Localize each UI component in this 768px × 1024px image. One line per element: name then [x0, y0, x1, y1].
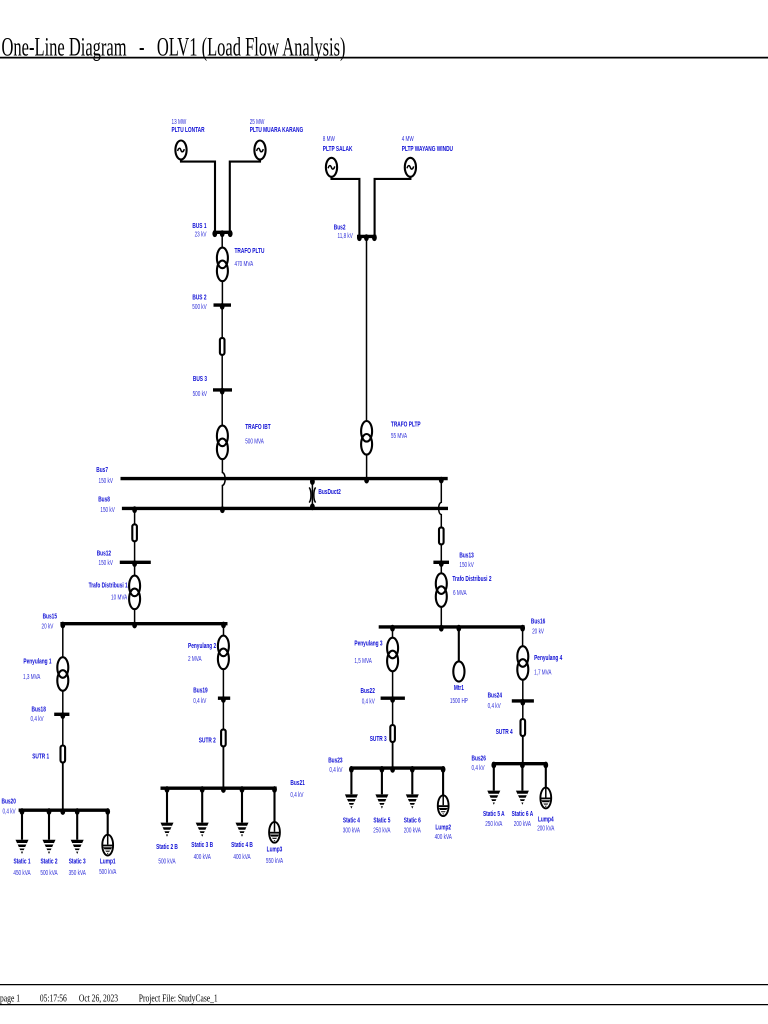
- load Lump4: [540, 788, 551, 809]
- wire SUTR 3 to Bus23: [392, 742, 394, 767]
- load Lump3 label: [266, 844, 283, 865]
- svg-text:150 kV: 150 kV: [99, 560, 114, 567]
- svg-text:1,3 MVA: 1,3 MVA: [23, 674, 41, 681]
- load Lump4 label: [537, 814, 554, 832]
- wire to Static 3: [76, 811, 78, 840]
- svg-text:Bus20: Bus20: [2, 796, 16, 805]
- bus Bus8 150 kV: [98, 495, 448, 515]
- svg-text:0,4 kV: 0,4 kV: [472, 765, 485, 772]
- transformer TRAFO PLTU: [217, 248, 228, 282]
- svg-text:Static 6 A: Static 6 A: [512, 809, 534, 818]
- svg-text:200 kVA: 200 kVA: [514, 821, 531, 828]
- load Static 5 A label: [483, 809, 505, 828]
- svg-text:Lump4: Lump4: [538, 814, 554, 823]
- load Static 3 label: [69, 857, 86, 878]
- svg-text:Trafo Distribusi 2: Trafo Distribusi 2: [452, 574, 491, 583]
- svg-text:SUTR 4: SUTR 4: [496, 727, 514, 736]
- svg-text:Lump2: Lump2: [435, 823, 451, 832]
- svg-text:Bus19: Bus19: [193, 685, 207, 694]
- svg-text:500 MVA: 500 MVA: [245, 439, 264, 446]
- transformer TRAFO IBT: [217, 426, 228, 460]
- load Static 4 B: [236, 823, 249, 837]
- node dot on Bus12: [132, 560, 137, 567]
- footer top line: [0, 984, 768, 986]
- svg-text:Static 4: Static 4: [343, 816, 361, 825]
- node dot on Bus24: [520, 699, 525, 706]
- load Static 4 B label: [231, 840, 253, 861]
- wire to Lump1: [107, 811, 109, 835]
- cable SUTR 4: [521, 719, 526, 736]
- svg-text:Static 5 A: Static 5 A: [483, 809, 505, 818]
- svg-text:500 kV: 500 kV: [192, 304, 207, 311]
- generator PLTP WAYANG WINDU label: [402, 136, 453, 153]
- svg-text:6 MVA: 6 MVA: [453, 590, 467, 597]
- node dots on Bus16: [390, 625, 525, 632]
- node dot on Bus19: [221, 696, 226, 703]
- bus Bus26 0,4 kV: [472, 753, 547, 772]
- svg-text:TRAFO IBT: TRAFO IBT: [245, 422, 271, 431]
- svg-text:Bus7: Bus7: [96, 465, 108, 474]
- wire to Static 4: [350, 769, 352, 794]
- motor Mtr1: [453, 661, 464, 681]
- bus BUS 2 500 kV: [192, 293, 231, 311]
- wire Bus13 to Trafo Distribusi 2: [440, 563, 442, 573]
- load Lump1 label: [99, 857, 116, 877]
- wire BUS 3 to TRAFO IBT: [221, 391, 223, 426]
- node dot on BUS 3: [220, 388, 225, 395]
- svg-text:550 kVA: 550 kVA: [266, 858, 283, 865]
- busduct BusDuct2 symbol: [309, 487, 315, 502]
- wire Bus16 to Penyulang 3: [392, 628, 394, 638]
- bus Bus7 150 kV: [96, 465, 447, 485]
- transformer Penyulang 2 label: [188, 641, 216, 663]
- load Static 2 label: [40, 857, 57, 878]
- svg-text:BUS 2: BUS 2: [192, 293, 206, 302]
- load Lump3: [269, 822, 280, 843]
- wire Bus12 to Trafo Distribusi 1: [134, 563, 136, 576]
- load Static 6 A: [516, 791, 529, 805]
- svg-text:150 kV: 150 kV: [99, 478, 114, 485]
- wire SUTR 1 to Bus20: [62, 763, 64, 810]
- cable impedance above Bus13: [439, 527, 444, 544]
- bus Bus24 0,4 kV: [488, 691, 534, 710]
- wire Trafo Distribusi 2 to Bus16: [440, 607, 442, 626]
- svg-text:Penyulang 2: Penyulang 2: [188, 641, 216, 650]
- svg-text:470 MVA: 470 MVA: [235, 261, 254, 268]
- wire BUS 1 to TRAFO PLTU: [221, 233, 223, 248]
- bus Bus20 0,4 kV: [2, 796, 109, 815]
- cable impedance above Bus12: [132, 524, 137, 541]
- svg-text:Bus21: Bus21: [290, 778, 304, 787]
- svg-text:450 kVA: 450 kVA: [13, 870, 30, 877]
- svg-text:1,7 MVA: 1,7 MVA: [534, 669, 552, 676]
- load Static 1: [16, 840, 29, 854]
- svg-text:500 kVA: 500 kVA: [158, 858, 175, 865]
- svg-text:Lump1: Lump1: [100, 857, 116, 866]
- load Static 4: [345, 794, 358, 808]
- wire gen3 to Bus2: [332, 177, 360, 237]
- node dot right drop on Bus7: [439, 477, 444, 484]
- wire to Static 2 B: [166, 789, 168, 823]
- bus Bus13 150 kV: [433, 550, 474, 569]
- svg-text:PLTU MUARA KARANG: PLTU MUARA KARANG: [250, 125, 304, 134]
- wire Penyulang 1 to Bus18: [62, 691, 64, 713]
- wire to Static 6: [411, 769, 413, 794]
- svg-text:500 kVA: 500 kVA: [99, 869, 116, 876]
- cable SUTR 3: [390, 725, 395, 742]
- wire SUTR 4 to Bus26: [522, 736, 524, 763]
- load Static 3: [71, 840, 84, 854]
- svg-text:PLTP WAYANG WINDU: PLTP WAYANG WINDU: [402, 144, 453, 153]
- load Lump2: [438, 795, 449, 816]
- load Static 6 A label: [512, 809, 534, 828]
- svg-text:Static 5: Static 5: [373, 816, 390, 825]
- svg-text:TRAFO PLTU: TRAFO PLTU: [235, 246, 265, 255]
- wire Bus16 to Penyulang 4: [522, 628, 524, 646]
- transformer Penyulang 1: [57, 657, 68, 691]
- svg-text:Bus22: Bus22: [361, 686, 375, 695]
- svg-text:Bus26: Bus26: [472, 753, 486, 762]
- svg-text:Static 3 B: Static 3 B: [191, 840, 213, 849]
- wire Bus8 to left cable: [134, 509, 136, 524]
- svg-text:55 MVA: 55 MVA: [391, 433, 407, 440]
- svg-text:0,4 kV: 0,4 kV: [3, 809, 16, 816]
- svg-text:4 MW: 4 MW: [402, 136, 414, 143]
- svg-text:1500 HP: 1500 HP: [450, 698, 468, 705]
- wire TRAFO IBT to Bus8 with hop over Bus7: [222, 459, 225, 506]
- svg-text:BUS 3: BUS 3: [193, 374, 207, 383]
- footer bottom line: [0, 1004, 768, 1006]
- wire TRAFO PLTP to Bus7: [366, 455, 368, 478]
- wire TRAFO PLTU to BUS 2: [221, 281, 223, 304]
- node dots on Bus23: [349, 766, 446, 773]
- node dot on BUS 2: [220, 303, 225, 310]
- wire to Static 5 A: [493, 765, 495, 791]
- bus BUS 1 23 kV: [192, 221, 232, 239]
- node dots on Bus15: [60, 622, 226, 629]
- load Static 3 B label: [191, 840, 213, 861]
- bus Bus21 0,4 kV: [161, 778, 305, 799]
- svg-text:1,5 MVA: 1,5 MVA: [354, 658, 372, 665]
- wire to Lump3: [273, 789, 275, 822]
- transformer TRAFO PLTU label: [235, 246, 265, 268]
- wire to Static 1: [21, 811, 23, 840]
- load Static 2 B label: [156, 842, 178, 866]
- node dot on Bus13: [439, 560, 444, 567]
- cable SUTR 2: [221, 729, 226, 746]
- node dots on Bus26: [491, 762, 548, 769]
- svg-text:Lump3: Lump3: [267, 844, 283, 853]
- svg-text:SUTR 3: SUTR 3: [370, 734, 387, 743]
- busduct BusDuct2 wire: [311, 480, 313, 507]
- node dots on Bus2: [357, 234, 377, 241]
- wire Trafo Distribusi 1 to Bus15: [134, 609, 136, 622]
- svg-text:SUTR 1: SUTR 1: [32, 752, 49, 761]
- svg-text:400 kVA: 400 kVA: [233, 854, 250, 861]
- svg-text:300 kVA: 300 kVA: [343, 827, 360, 834]
- transformer Penyulang 4: [517, 646, 528, 680]
- svg-text:400 kVA: 400 kVA: [435, 834, 452, 841]
- bus Bus15 20 kV: [42, 611, 228, 630]
- wire Bus16 to Mtr1: [458, 628, 460, 662]
- wire Bus22 to SUTR 3: [392, 699, 394, 725]
- svg-text:Bus12: Bus12: [97, 548, 111, 557]
- wire cable to Bus13: [440, 544, 442, 561]
- load Lump1: [102, 835, 113, 856]
- svg-text:Static 1: Static 1: [14, 857, 31, 866]
- transformer Penyulang 3 label: [354, 638, 382, 665]
- svg-text:Penyulang 3: Penyulang 3: [354, 638, 382, 647]
- svg-text:0,4 kV: 0,4 kV: [488, 703, 501, 710]
- svg-text:0,4 kV: 0,4 kV: [193, 698, 206, 705]
- svg-text:400 kVA: 400 kVA: [194, 854, 211, 861]
- svg-text:0,4 kV: 0,4 kV: [31, 716, 44, 723]
- load Static 4 label: [343, 816, 361, 835]
- load Static 6: [406, 794, 419, 808]
- wire to Static 2: [48, 811, 50, 840]
- node dot on Bus18: [60, 712, 65, 719]
- node dot on Bus22: [390, 696, 395, 703]
- svg-text:Trafo Distribusi 1: Trafo Distribusi 1: [89, 580, 128, 589]
- svg-text:Bus13: Bus13: [459, 550, 473, 559]
- svg-text:Bus16: Bus16: [531, 616, 545, 625]
- motor Mtr1 label: [450, 683, 468, 705]
- load Static 2: [43, 840, 56, 854]
- wire Bus15 to Penyulang 2: [223, 625, 225, 636]
- svg-text:350 kVA: 350 kVA: [69, 870, 86, 877]
- svg-text:0,4 kV: 0,4 kV: [362, 698, 375, 705]
- wire Bus18 to SUTR 1: [62, 715, 64, 746]
- svg-text:200 kVA: 200 kVA: [404, 827, 421, 834]
- wire to Static 6 A: [521, 765, 523, 791]
- bus Bus18 0,4 kV: [31, 705, 70, 723]
- wire BUS 2 to cable: [221, 306, 223, 338]
- bus Bus12 150 kV: [97, 548, 151, 567]
- svg-text:page 1: page 1: [0, 993, 20, 1004]
- svg-text:SUTR 2: SUTR 2: [199, 735, 216, 744]
- node dots on Bus21: [165, 786, 277, 793]
- load Static 5 label: [373, 816, 390, 835]
- svg-text:Project File: StudyCase_1: Project File: StudyCase_1: [139, 993, 218, 1004]
- wire Bus24 to SUTR 4: [522, 702, 524, 719]
- svg-text:Penyulang 4: Penyulang 4: [534, 653, 563, 662]
- svg-text:PLTU LONTAR: PLTU LONTAR: [172, 125, 206, 134]
- svg-text:23 kV: 23 kV: [195, 231, 207, 238]
- wire cable to BUS 3: [221, 355, 223, 389]
- load Lump2 label: [435, 823, 452, 841]
- node dots on BUS 1: [212, 230, 232, 237]
- svg-text:10 MVA: 10 MVA: [111, 595, 127, 602]
- transformer TRAFO IBT label: [245, 422, 271, 446]
- wire to Lump2: [442, 769, 444, 795]
- svg-text:Static 2: Static 2: [41, 857, 58, 866]
- svg-text:Static 4 B: Static 4 B: [231, 840, 253, 849]
- svg-text:8 MW: 8 MW: [323, 136, 335, 143]
- svg-text:20 kV: 20 kV: [42, 624, 54, 631]
- wire Bus15 to Penyulang 1: [62, 625, 64, 657]
- load Static 3 B: [196, 823, 209, 837]
- svg-text:0,4 kV: 0,4 kV: [290, 792, 303, 799]
- generator PLTU LONTAR label: [172, 119, 206, 134]
- svg-text:Static 2 B: Static 2 B: [156, 842, 178, 851]
- bus Bus2 11,8 kV: [334, 222, 377, 240]
- svg-text:Static 3: Static 3: [69, 857, 86, 866]
- transformer Trafo Distribusi 2 label: [452, 574, 491, 597]
- svg-text:Bus24: Bus24: [488, 691, 503, 700]
- wire Penyulang 4 to Bus24: [522, 680, 524, 700]
- load Static 1 label: [13, 857, 30, 878]
- transformer Trafo Distribusi 1 label: [89, 580, 128, 601]
- svg-text:BUS 1: BUS 1: [192, 221, 206, 230]
- bus Bus22 0,4 kV: [361, 686, 405, 706]
- load Static 5: [375, 794, 388, 808]
- bus Bus16 20 kV: [379, 616, 546, 635]
- wire to Static 4 B: [241, 789, 243, 823]
- node dot left drop on Bus8: [132, 506, 137, 513]
- svg-text:150 kV: 150 kV: [100, 507, 115, 514]
- svg-text:BusDuct2: BusDuct2: [318, 487, 340, 496]
- svg-text:Bus8: Bus8: [98, 495, 110, 504]
- svg-text:500 kVA: 500 kVA: [40, 870, 57, 877]
- transformer Trafo Distribusi 2: [436, 573, 447, 607]
- svg-text:20 kV: 20 kV: [532, 628, 544, 635]
- svg-text:Mtr1: Mtr1: [454, 683, 464, 692]
- wire to Static 3 B: [201, 789, 203, 823]
- transformer TRAFO PLTP label: [391, 419, 421, 440]
- svg-text:Bus2: Bus2: [334, 222, 346, 231]
- wire gen2 to BUS 1: [230, 160, 260, 234]
- svg-text:TRAFO PLTP: TRAFO PLTP: [391, 419, 421, 428]
- svg-text:Bus23: Bus23: [328, 756, 342, 765]
- wire Bus2 to TRAFO PLTP: [366, 237, 368, 421]
- generator PLTP WAYANG WINDU: [405, 158, 416, 177]
- generator PLTP SALAK label: [323, 136, 353, 153]
- wire gen1 to BUS 1: [181, 160, 215, 234]
- svg-text:Oct 26, 2023: Oct 26, 2023: [79, 993, 118, 1004]
- wire Penyulang 3 to Bus22: [392, 671, 394, 697]
- svg-text:150 kV: 150 kV: [459, 562, 474, 569]
- generator PLTU MUARA KARANG label: [250, 119, 304, 134]
- busduct BusDuct2 node dots: [310, 478, 315, 510]
- transformer Penyulang 4 label: [534, 653, 563, 676]
- svg-text:Bus15: Bus15: [43, 611, 57, 620]
- node dot TRAFO IBT on Bus8: [220, 506, 225, 513]
- wire gen4 to Bus2: [375, 177, 411, 237]
- node dots on Bus20: [20, 808, 111, 815]
- svg-text:05:17:56: 05:17:56: [40, 993, 67, 1004]
- generator PLTU LONTAR: [175, 141, 186, 160]
- wire SUTR 2 to Bus21: [222, 746, 224, 787]
- transformer Penyulang 2: [218, 636, 229, 670]
- title underline: [0, 57, 768, 59]
- generator PLTU MUARA KARANG: [254, 141, 265, 160]
- wire to Static 5: [381, 769, 383, 794]
- svg-text:2 MVA: 2 MVA: [188, 656, 202, 663]
- bus BUS 3 500 kV: [193, 374, 232, 398]
- svg-text:0,4 kV: 0,4 kV: [329, 767, 342, 774]
- load Static 6 label: [404, 816, 421, 835]
- transformer TRAFO PLTP: [361, 421, 372, 455]
- svg-text:250 kVA: 250 kVA: [485, 821, 502, 828]
- wire cable to Bus12: [134, 541, 136, 561]
- wire Bus7 to cable right with hop over Bus8: [439, 480, 442, 528]
- svg-text:Static 6: Static 6: [404, 816, 421, 825]
- wire to Lump4: [545, 765, 547, 788]
- node dot TRAFO PLTP on Bus7: [364, 477, 369, 484]
- bus Bus19 0,4 kV: [193, 685, 230, 705]
- bus Bus23 0,4 kV: [328, 756, 444, 774]
- transformer Penyulang 3: [387, 638, 398, 672]
- wire Bus19 to SUTR 2: [222, 699, 224, 730]
- svg-text:Bus18: Bus18: [32, 705, 46, 714]
- svg-text:PLTP SALAK: PLTP SALAK: [323, 144, 353, 153]
- svg-text:250 kVA: 250 kVA: [373, 827, 390, 834]
- transformer Penyulang 1 label: [23, 657, 52, 682]
- cable impedance between BUS 2 and BUS 3: [220, 338, 225, 355]
- svg-text:500 kV: 500 kV: [193, 391, 208, 398]
- svg-text:11,8 kV: 11,8 kV: [338, 233, 354, 240]
- wire Penyulang 2 to Bus19: [222, 669, 224, 697]
- cable SUTR 1: [61, 746, 66, 763]
- svg-text:200 kVA: 200 kVA: [537, 826, 554, 833]
- generator PLTP SALAK: [326, 158, 337, 177]
- load Static 5 A: [487, 791, 500, 805]
- svg-text:Penyulang 1: Penyulang 1: [23, 657, 51, 666]
- load Static 2 B: [161, 823, 174, 837]
- transformer Trafo Distribusi 1: [129, 576, 140, 610]
